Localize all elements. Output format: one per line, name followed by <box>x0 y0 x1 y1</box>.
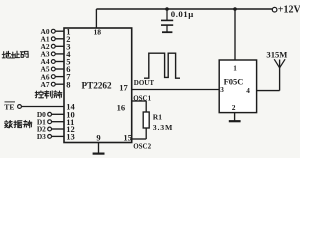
pin 2 stub + terminal circle, input A1 <box>55 38 64 40</box>
svg-text:+12V: +12V <box>278 5 300 16</box>
svg-text:1: 1 <box>233 64 237 72</box>
wire: rail down to F05C pin 1 <box>234 9 236 60</box>
svg-text:8: 8 <box>66 79 70 89</box>
label (chinese char shu) <box>5 121 13 128</box>
pin 13 stub + terminal circle, input D3 <box>52 135 65 137</box>
label (chinese char zhi) <box>44 91 52 98</box>
svg-text:4: 4 <box>246 87 250 95</box>
svg-text:3.3M: 3.3M <box>153 123 173 132</box>
svg-text:TE: TE <box>4 102 14 111</box>
ground: F05C pin 2 <box>234 113 236 121</box>
label (chinese char duan) <box>54 91 62 98</box>
svg-text:9: 9 <box>96 132 100 142</box>
label (chinese char zhi) <box>11 51 19 58</box>
wire: +12V top rail <box>96 8 272 10</box>
svg-text:OSC2: OSC2 <box>133 142 151 150</box>
pin 12 stub + terminal circle, input D2 <box>52 128 65 130</box>
node: junction dot capacitor / rail <box>165 7 169 11</box>
svg-text:0.01μ: 0.01μ <box>171 9 194 19</box>
pin 11 stub + terminal circle, input D1 <box>52 121 65 123</box>
label (chinese char ju) <box>14 121 22 128</box>
svg-text:17: 17 <box>119 83 128 93</box>
svg-text:R1: R1 <box>153 113 162 122</box>
label (chinese char kong) <box>35 91 43 98</box>
pin 14 stub + TE terminal circle <box>21 106 64 108</box>
label (chinese char ma) <box>20 51 28 57</box>
svg-text:PT2262: PT2262 <box>82 81 113 91</box>
resistor R1 bottom lead <box>145 128 147 139</box>
ground: PT2262 pin 9 <box>98 143 100 154</box>
waveform symbol (pulse train) above DOUT wire <box>144 53 180 78</box>
svg-text:A7: A7 <box>41 80 50 89</box>
svg-text:OSC1: OSC1 <box>133 94 151 102</box>
svg-text:16: 16 <box>117 103 126 113</box>
svg-text:15: 15 <box>123 132 131 142</box>
resistor R1 top lead <box>145 101 147 112</box>
svg-text:F05C: F05C <box>224 76 244 86</box>
pin 3 stub + terminal circle, input A2 <box>55 45 64 47</box>
wire: OSC1 pin16 stub <box>132 100 147 102</box>
wire: DOUT pin17 to F05C pin 3 <box>132 89 220 91</box>
antenna arms <box>274 59 279 68</box>
pin 1 stub + terminal circle, input A0 <box>55 30 64 32</box>
pin 6 stub + terminal circle, input A5 <box>55 68 64 70</box>
svg-text:D3: D3 <box>37 132 46 141</box>
pin 8 stub + terminal circle, input A7 <box>55 83 64 85</box>
pin 4 stub + terminal circle, input A3 <box>55 53 64 55</box>
module U2 F05C body <box>219 60 256 113</box>
pin 10 stub + terminal circle, input D0 <box>52 113 65 115</box>
pin 5 stub + terminal circle, input A4 <box>55 61 64 63</box>
capacitor C 0.01u (lead, plates, ground bar) <box>166 9 168 20</box>
label (chinese char duan) <box>24 120 32 127</box>
svg-text:18: 18 <box>94 28 102 37</box>
node: junction dot F05C pin1 / rail <box>233 7 237 11</box>
wire: pin 18 riser from PT2262 top to +12V rail <box>95 9 97 28</box>
label (chinese char di) <box>2 51 10 58</box>
pin 7 stub + terminal circle, input A6 <box>55 76 64 78</box>
IC U1 PT2262 body <box>64 28 132 143</box>
antenna mast <box>279 60 281 91</box>
svg-text:315M: 315M <box>266 49 287 59</box>
wire: F05C pin 4 to antenna <box>257 90 280 92</box>
terminal: +12V open circle <box>272 7 277 12</box>
svg-text:DOUT: DOUT <box>134 79 155 87</box>
resistor R1 body <box>143 112 149 128</box>
svg-text:13: 13 <box>66 132 75 142</box>
svg-text:2: 2 <box>232 103 236 112</box>
svg-text:3: 3 <box>220 86 224 94</box>
wire: OSC2 pin15 stub <box>132 138 147 140</box>
